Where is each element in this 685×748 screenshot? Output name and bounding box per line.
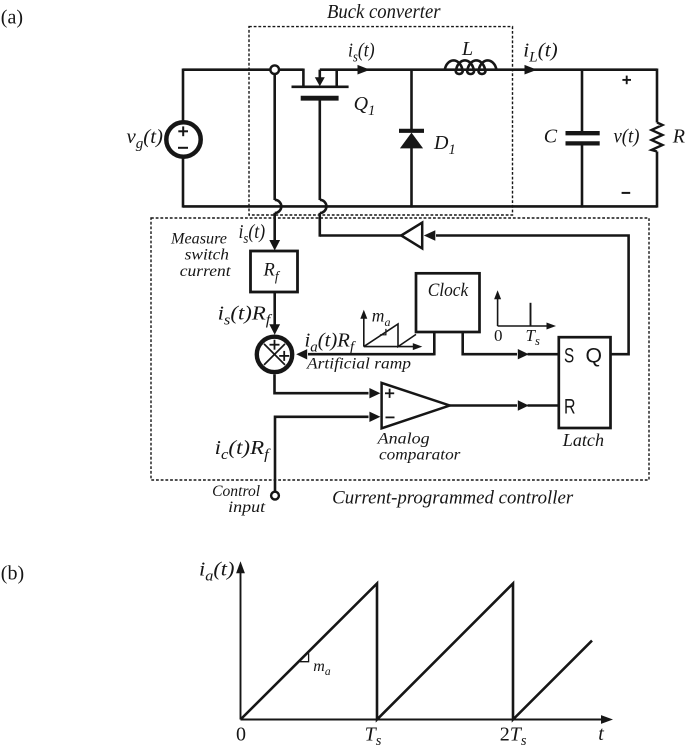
voltage source vg(t) [166, 122, 200, 156]
svg-text:Q: Q [586, 344, 603, 368]
wire: Rf to summing node [273, 292, 276, 327]
svg-text:comparator: comparator [379, 447, 461, 464]
arrow into summing node [269, 324, 280, 335]
transistor Q1 (MOSFET) [292, 69, 349, 99]
label Measure switch current [170, 231, 231, 280]
sawtooth waveform [241, 584, 593, 720]
svg-text:is(t): is(t) [239, 221, 266, 247]
summing node [257, 337, 292, 372]
node: switch current tap (open terminal) [270, 65, 279, 74]
svg-text:Current-programmed controller: Current-programmed controller [332, 489, 574, 509]
wire: bottom rail [183, 205, 657, 208]
wire: vg bottom lead [182, 158, 185, 208]
ramp waveform icon [360, 310, 422, 350]
svg-text:Control: Control [212, 483, 260, 500]
svg-text:C: C [544, 125, 558, 147]
svg-text:Measure: Measure [170, 231, 227, 248]
svg-text:iL(t): iL(t) [523, 39, 558, 65]
label + output [622, 79, 631, 81]
wire: clock to ramp generator [433, 332, 436, 355]
wire: artificial ramp input [308, 353, 434, 356]
arrow: iL(t) on top rail [525, 65, 538, 75]
waveform axes [236, 561, 613, 724]
resistor Rf box [251, 251, 298, 292]
capacitor C [566, 70, 600, 208]
wire: driver to Q1 gate [320, 234, 401, 237]
wire: comparator output to latch R [450, 404, 517, 407]
label Control input [212, 483, 266, 516]
arrow: is(t) on top rail [358, 65, 371, 75]
svg-text:Ts: Ts [526, 326, 540, 348]
svg-text:Analog: Analog [376, 431, 429, 448]
gate driver buffer [401, 223, 422, 249]
svg-text:S: S [564, 344, 574, 368]
svg-text:Clock: Clock [428, 281, 469, 301]
svg-text:is(t): is(t) [348, 39, 375, 65]
diode D1 [399, 70, 424, 208]
svg-text:v(t): v(t) [614, 126, 640, 148]
analog comparator U1 [382, 383, 450, 428]
svg-text:R: R [672, 126, 685, 148]
wire: gate lead with hop over bottom rail [318, 100, 321, 200]
wire: summing node to comparator + [275, 374, 369, 393]
svg-text:ma: ma [372, 306, 391, 330]
arrow into Rf [269, 240, 280, 251]
svg-text:switch: switch [185, 247, 230, 264]
control input terminal [271, 492, 279, 500]
svg-text:0: 0 [494, 326, 503, 345]
svg-text:0: 0 [236, 724, 246, 746]
svg-text:Artificial ramp: Artificial ramp [306, 356, 411, 373]
svg-text:is(t)Rf: is(t)Rf [218, 303, 273, 329]
svg-text:current: current [180, 263, 232, 280]
wire: control input to comparator - [275, 417, 369, 492]
label Analog comparator [376, 431, 461, 464]
label - output [622, 192, 631, 194]
wire: clock to latch S [463, 332, 517, 354]
wire: top rail right (Q1 source to output) [320, 68, 657, 71]
svg-text:ia(t): ia(t) [199, 559, 235, 585]
clock box [416, 273, 480, 332]
svg-text:Ts: Ts [365, 723, 382, 748]
svg-text:Q1: Q1 [354, 93, 376, 119]
svg-text:input: input [228, 499, 266, 516]
clock pulse icon [494, 290, 556, 329]
wire: latch Q feedback [436, 236, 629, 355]
svg-text:L: L [461, 38, 473, 60]
wire: vg top lead [182, 69, 185, 122]
svg-text:(b): (b) [1, 563, 24, 585]
svg-text:D1: D1 [433, 132, 456, 158]
svg-text:2Ts: 2Ts [500, 723, 527, 748]
dashed box: Buck converter [249, 27, 513, 215]
svg-text:(a): (a) [1, 6, 23, 28]
svg-text:t: t [598, 723, 604, 745]
svg-text:vg(t): vg(t) [127, 126, 164, 152]
svg-text:Buck converter: Buck converter [327, 1, 441, 23]
dashed box: Current-programmed controller [151, 218, 649, 480]
inductor L [445, 60, 497, 74]
slope marker ma (waveform) [300, 653, 309, 662]
svg-text:ic(t)Rf: ic(t)Rf [215, 437, 271, 463]
svg-text:R: R [564, 395, 576, 419]
wire: top rail left (vg to Q1 drain) [183, 68, 303, 71]
wire: current sense drop with hop [273, 74, 276, 200]
svg-text:Latch: Latch [562, 430, 604, 450]
latch SR box [559, 337, 611, 428]
svg-text:ia(t)Rf: ia(t)Rf [305, 329, 357, 355]
svg-text:ma: ma [313, 658, 331, 678]
resistor R [652, 69, 663, 208]
